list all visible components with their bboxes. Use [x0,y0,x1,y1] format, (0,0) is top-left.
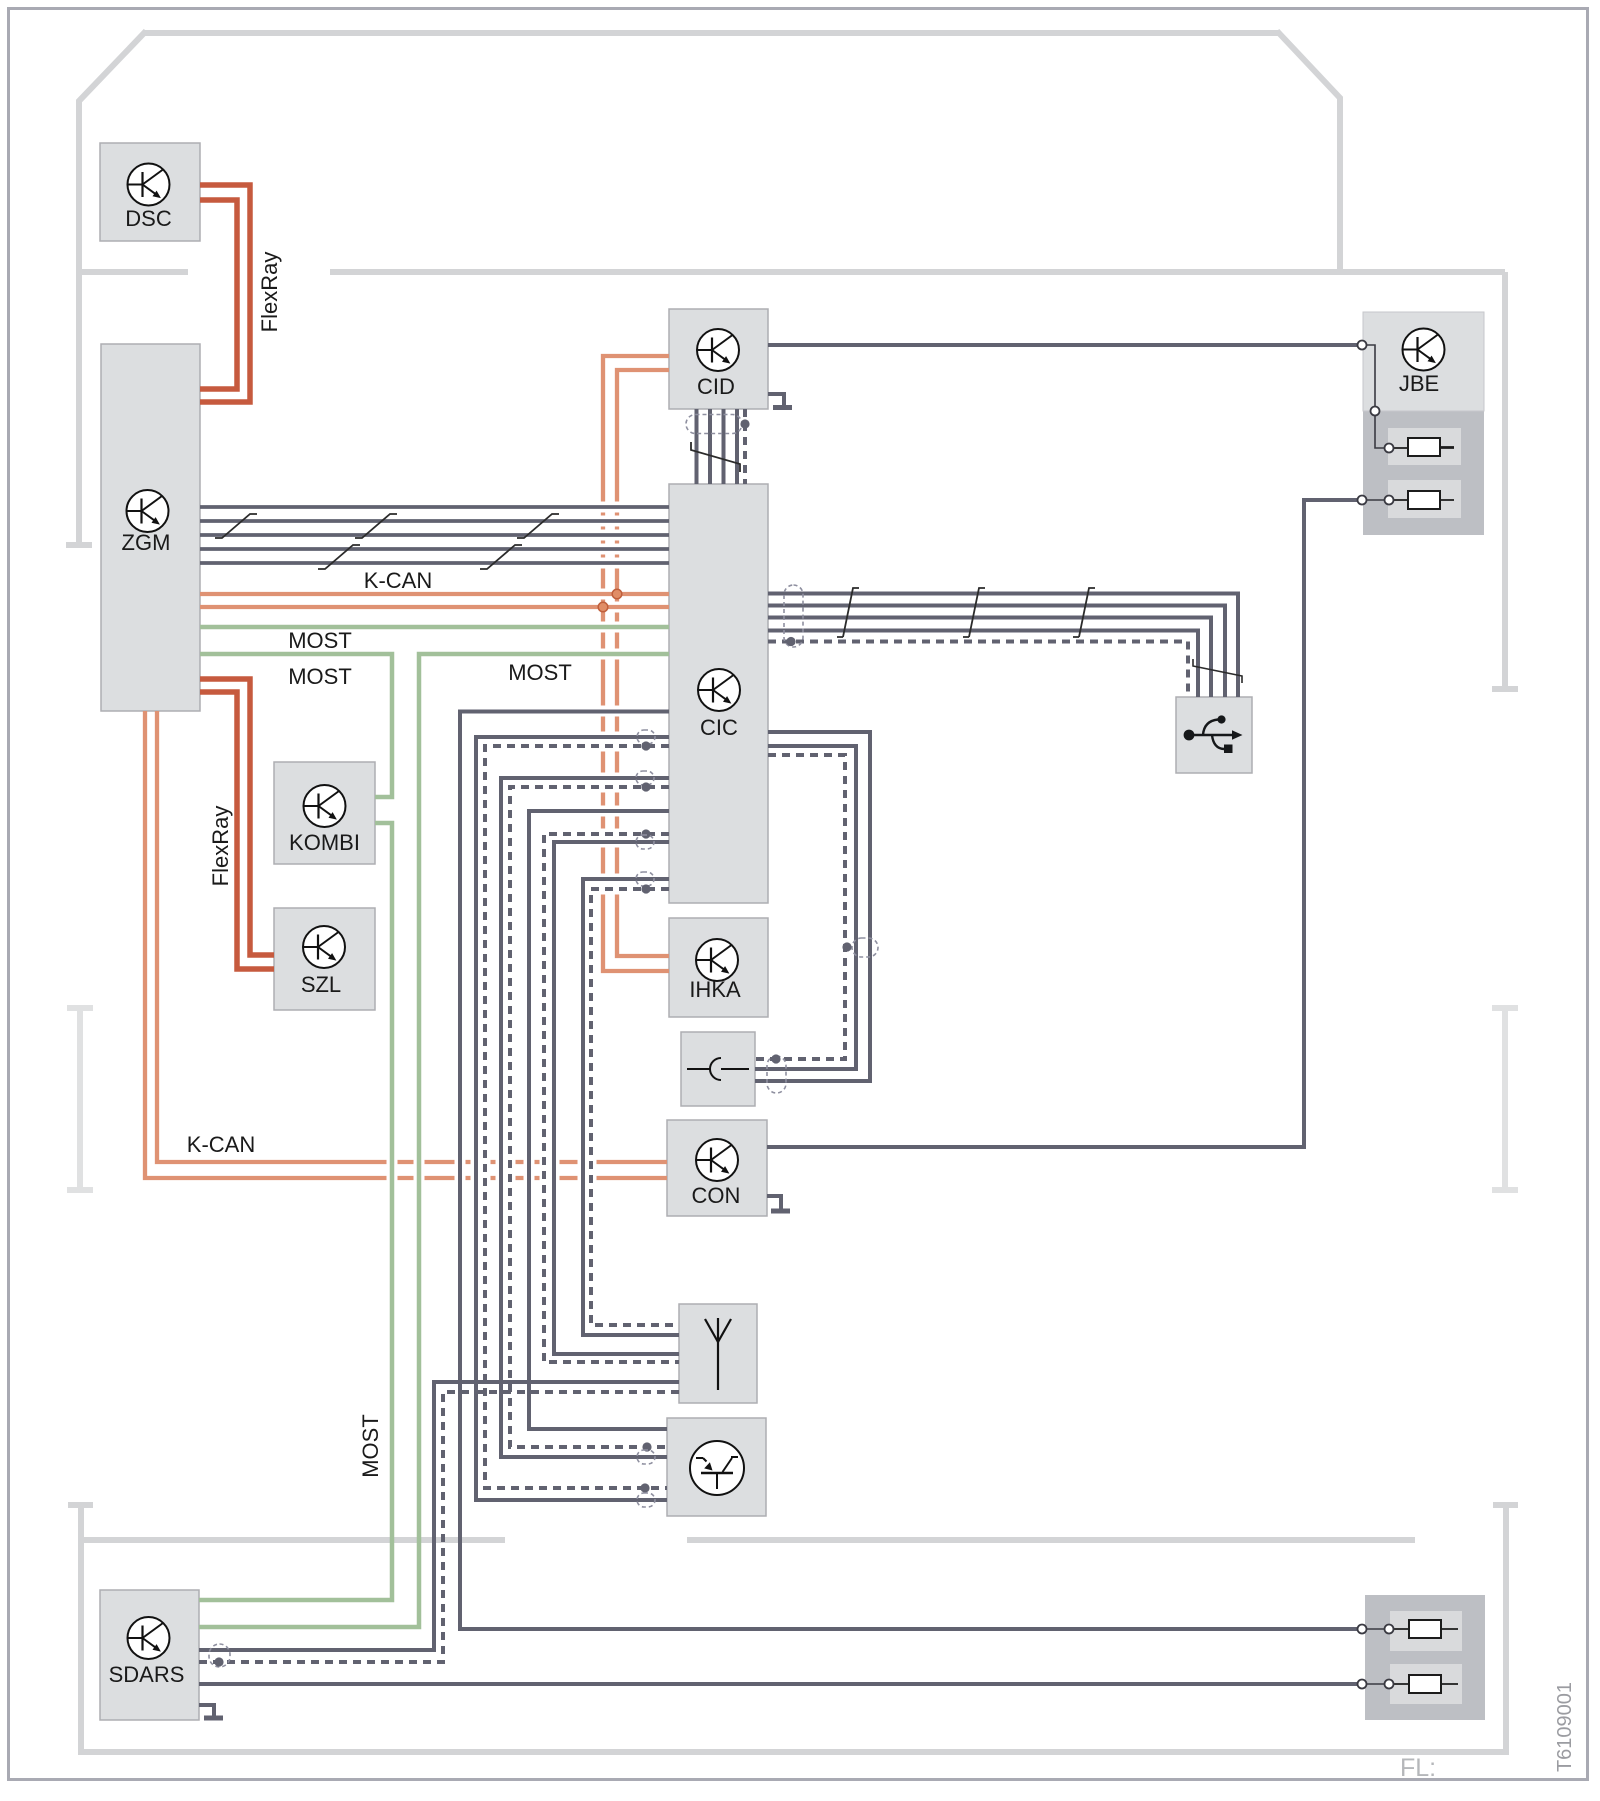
svg-text:SZL: SZL [301,972,341,997]
label FlexRay top [257,252,282,333]
junction dot at antenna amplifier 2 [640,1483,649,1492]
label MOST vertical [358,1414,383,1478]
svg-text:KOMBI: KOMBI [289,830,360,855]
bus marker slash on USB cable 1 [837,588,859,637]
CIC to antenna wire 2 [583,879,679,1335]
CIC to antenna shield wire 2 dashed [591,889,679,1325]
junction dot on microphone shield riser [842,942,851,951]
connector capsule on CID cable [686,415,742,434]
CIC to microphone wire inner [755,746,856,1069]
CIC to antenna wire [554,842,679,1354]
svg-text:JBE: JBE [1399,371,1439,396]
CIC to antenna amplifier shield 2 dashed [510,787,669,1447]
junction dot K-CAN lower [598,602,608,612]
SDARS to antenna wire [199,1382,679,1650]
K-CAN bus ZGM to CIC upper [200,592,669,596]
CIC to microphone shield wire dashed [755,755,845,1059]
label DSC [125,206,172,231]
bus marker slash on USB cable 3 [1073,588,1095,637]
K-CAN wire ZGM to CON upper [157,711,667,1162]
junction dot antenna shield 2 [641,782,650,791]
svg-text:CID: CID [697,374,735,399]
bus marker slash on body bus 4 [318,545,360,569]
junction dot at antenna amplifier 1 [642,1442,651,1451]
CIC to microphone wire outer [755,732,870,1081]
label CON [692,1183,741,1208]
fuse F1 in JBE [1358,341,1455,457]
svg-text:K-CAN: K-CAN [187,1132,255,1157]
body bus ZGM to CIC wire 4 [200,547,669,551]
K-CAN wire ZGM to CON lower [145,711,667,1178]
control unit symbol CID [697,329,739,371]
CIC to USB wire 2 [768,606,1225,698]
junction dot K-CAN upper [612,589,622,599]
CIC to USB wire 1 [768,594,1238,698]
label FlexRay lower [208,806,233,887]
label KOMBI [289,830,360,855]
IHKA climate control box [669,918,768,1017]
junction dot at SDARS shield [214,1657,223,1666]
svg-text:SDARS: SDARS [109,1662,185,1687]
connector capsule on USB cable [784,585,803,647]
control unit symbol JBE [1403,329,1445,371]
connector capsule at SDARS [209,1644,230,1667]
control unit symbol KOMBI [304,785,346,827]
label MOST 3 [508,660,572,685]
svg-text:CIC: CIC [700,715,738,740]
ground at SDARS [199,1705,223,1718]
label T6109001 [1554,1682,1576,1772]
control unit symbol ZGM [127,490,169,532]
MOST bus ZGM to KOMBI [200,654,392,797]
bus marker slash on body bus 5 [480,545,522,569]
control unit symbol CON [696,1139,738,1181]
antenna amplifier box [667,1418,766,1516]
junction dot antenna shield 3 [641,829,650,838]
body bus ZGM to CIC wire 1 [200,505,669,509]
SDARS to antenna shield wire dashed [199,1392,679,1662]
svg-text:K-CAN: K-CAN [364,568,432,593]
label CID [697,374,735,399]
body bus ZGM to CIC wire 5 [200,561,669,565]
control unit symbol IHKA [696,939,738,981]
CON controller box [667,1120,767,1216]
CIC to USB wire 3 [768,618,1211,698]
KOMBI instrument cluster box [274,762,375,864]
svg-text:IHKA: IHKA [689,977,741,1002]
junction dot at microphone shield [771,1054,780,1063]
SZL steering column switch box [274,908,375,1010]
rear fuse box [1365,1595,1485,1720]
ground at CON [767,1196,790,1211]
microphone box [681,1032,755,1106]
fuse F3 in rear fuse box [1358,1620,1459,1638]
fuse F2 in JBE [1358,491,1455,509]
label FL [1400,1754,1436,1782]
control unit symbol SZL [303,926,345,968]
CIC to USB shield wire dashed [768,642,1188,698]
FlexRay bus DSC to ZGM wire B [200,200,237,389]
connector capsule at antenna amplifier 2 [637,1493,655,1507]
svg-text:MOST: MOST [288,628,352,653]
svg-text:MOST: MOST [508,660,572,685]
CIC to USB wire 4 [768,631,1198,698]
connector capsule antenna wire 2 [636,771,654,785]
control unit symbol DSC [128,164,170,206]
label SZL [301,972,341,997]
connector capsule antenna wire 1 [637,730,655,744]
DSC control unit box [100,143,200,241]
wire crossing gaps on K-CAN horizontals to CON [387,1158,597,1182]
structural pillar left [67,1008,93,1190]
MOST bus SDARS to CIC [199,654,669,1627]
CID to CIC wire 4 [735,409,739,484]
CID to CIC wire 1 [695,409,699,484]
USB port box [1176,697,1252,773]
ground at CID [768,394,792,408]
bus marker slash on body bus 3 [517,514,559,538]
control unit symbol SDARS [128,1617,170,1659]
microphone symbol [687,1058,749,1080]
svg-text:DSC: DSC [125,206,172,231]
SDARS satellite tuner box [100,1590,199,1720]
connector capsule at microphone [767,1056,786,1093]
CID to JBE power wire [768,343,1358,347]
antenna symbol [705,1318,731,1390]
svg-text:CON: CON [692,1183,741,1208]
body bus ZGM to CIC wire 2 [200,519,669,523]
CIC to antenna amplifier wire 1 [476,737,669,1500]
bus marker slash on USB cable 4 [1193,659,1242,683]
label ZGM [122,530,171,555]
label MOST 1 [288,628,352,653]
label IHKA [689,977,741,1002]
label MOST 2 [288,664,352,689]
FlexRay bus DSC to ZGM wire A [200,185,250,402]
SDARS to rear fuse wire [199,1682,1358,1686]
bus marker slash on body bus 1 [215,514,257,538]
label SDARS [109,1662,185,1687]
junction dot CID shield [740,419,749,428]
bus marker slash on body bus 2 [355,514,397,538]
junction dot USB shield [786,637,795,646]
FlexRay bus ZGM to SZL wire B [200,692,274,969]
USB symbol [1184,715,1243,753]
connector capsule antenna wire 4 [636,872,654,886]
CIC to antenna shield wire dashed [544,834,679,1362]
svg-text:ZGM: ZGM [122,530,171,555]
bus marker slash on CID cable [691,442,740,472]
label K-CAN lower [187,1132,255,1157]
CID to CIC wire 2 [708,409,712,484]
CIC to antenna amplifier shield 1 dashed [485,746,669,1488]
antenna box [679,1304,757,1403]
label JBE [1399,371,1439,396]
CIC to antenna amplifier wire 3 [529,811,669,1429]
MOST bus ZGM to CIC [200,625,669,630]
svg-text:MOST: MOST [358,1414,383,1478]
wire crossing gaps on K-CAN verticals [599,502,621,895]
svg-text:FlexRay: FlexRay [208,806,233,887]
K-CAN wire CID to IHKA left [603,356,669,971]
junction dot antenna shield 4 [641,884,650,893]
ZGM central gateway module box [101,344,200,711]
connector capsule antenna wire 3 [636,835,654,849]
body bus ZGM to CIC wire 3 [200,533,669,537]
JBE junction box electronics [1363,312,1484,535]
junction dot antenna shield 1 [641,741,650,750]
CIC to rear fuse wire [460,712,1358,1630]
CON to JBE fuse wire [767,500,1358,1147]
label CIC [700,715,738,740]
antenna amplifier symbol [690,1441,744,1495]
MOST bus KOMBI to SDARS [199,823,392,1600]
FlexRay bus ZGM to SZL wire A [200,679,274,955]
connector capsule on microphone shield riser [852,938,878,957]
svg-text:FlexRay: FlexRay [257,252,282,333]
connector capsule at antenna amplifier 1 [637,1450,655,1464]
label K-CAN upper [364,568,432,593]
K-CAN bus ZGM to CIC lower [200,605,669,609]
svg-text:MOST: MOST [288,664,352,689]
CID to CIC shield wire dashed [743,409,747,484]
CID to CIC wire 3 [722,409,726,484]
CID central information display box [669,309,768,409]
svg-text:T6109001: T6109001 [1554,1682,1576,1772]
structural pillar right [1492,1008,1518,1190]
K-CAN wire CID to IHKA right [617,370,669,956]
control unit symbol CIC [698,669,740,711]
CIC car information computer box [669,484,768,903]
bus marker slash on USB cable 2 [963,588,985,637]
svg-text:FL:: FL: [1400,1754,1436,1782]
fuse F4 in rear fuse box [1358,1675,1459,1693]
CIC to antenna amplifier wire 2 [501,778,669,1457]
